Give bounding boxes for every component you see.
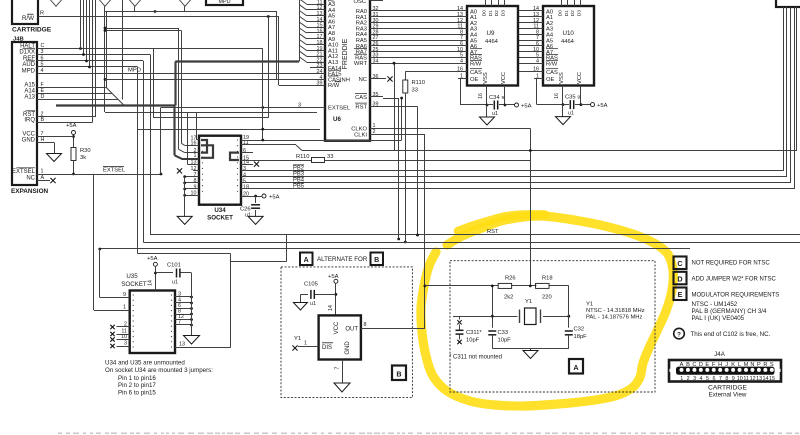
svg-text:u1: u1 — [492, 111, 498, 117]
svg-text:This end of C102 is free, NC.: This end of C102 is free, NC. — [691, 331, 771, 338]
label GND vertical — [345, 341, 351, 355]
wire EXTSEL with net label — [37, 167, 161, 175]
svg-text:NTSC - UM1452: NTSC - UM1452 — [692, 301, 738, 308]
capacitor C101 — [155, 263, 191, 286]
vertical link x=286.7 — [231, 235, 287, 262]
svg-text:Pin 2 to pin17: Pin 2 to pin17 — [118, 382, 156, 389]
capacitor C33 10pF — [488, 330, 511, 349]
bus segments between U9 and U10 — [518, 11, 534, 72]
svg-text:CARTRIDGE: CARTRIDGE — [708, 385, 747, 392]
svg-text:External View: External View — [709, 392, 747, 399]
svg-text:8: 8 — [194, 178, 197, 184]
pin 1 DIS stub with X — [292, 341, 318, 351]
wire U34 pin11 with jog — [241, 62, 395, 151]
crystal Y1 — [520, 299, 541, 325]
pin B IRQ of J4B — [24, 117, 44, 124]
svg-text:PAL - 14.187576 MHz: PAL - 14.187576 MHz — [586, 315, 642, 321]
svg-text:D1: D1 — [488, 10, 494, 16]
svg-text:3: 3 — [124, 341, 127, 347]
pin 3 EXTSEL of U6 — [298, 102, 351, 111]
svg-text:DIS: DIS — [322, 345, 332, 351]
pin 39 RST of U6 — [355, 101, 383, 110]
IC socket U34 body — [199, 136, 241, 205]
svg-text:NTSC - 14.31818 MHz: NTSC - 14.31818 MHz — [586, 308, 645, 314]
svg-text:18pF: 18pF — [574, 334, 588, 340]
socket dots inside U35 — [133, 294, 173, 347]
pin 23 FA14 of U6 — [310, 63, 342, 72]
note C102 free — [691, 331, 771, 338]
label EXPANSION — [11, 188, 49, 195]
crystal frequency note — [586, 302, 645, 321]
svg-text:u1: u1 — [172, 280, 178, 286]
pin 22 A13 of U6 — [310, 57, 338, 66]
ground at crystal — [523, 349, 538, 359]
svg-text:D2: D2 — [494, 10, 500, 16]
svg-text:D: D — [677, 274, 682, 283]
svg-text:IRQ: IRQ — [24, 118, 35, 124]
ground bus left of U34 — [177, 177, 192, 225]
label DIS with overline — [322, 343, 333, 351]
wire U6 RST down to RST net — [383, 107, 419, 237]
pin 19 A11 of U6 — [310, 46, 338, 55]
svg-text:B: B — [374, 257, 379, 264]
svg-text:R/W: R/W — [328, 83, 340, 89]
svg-text:MPD: MPD — [128, 68, 141, 74]
wire RST from J4B — [37, 0, 96, 117]
ground at U9 — [480, 105, 499, 125]
svg-text:2: 2 — [124, 322, 127, 328]
pin 1 CLKO of U6 — [351, 123, 383, 132]
svg-text:A13: A13 — [24, 95, 35, 101]
svg-text:33: 33 — [412, 88, 418, 94]
svg-text:3: 3 — [243, 166, 246, 172]
jumper U34 pin1-pin16 — [201, 145, 213, 158]
svg-text:D2: D2 — [570, 10, 576, 16]
svg-text:NC: NC — [26, 176, 35, 182]
svg-text:1: 1 — [41, 169, 44, 175]
svg-text:12: 12 — [750, 376, 756, 382]
label OSC pin (cut) — [353, 0, 383, 5]
svg-text:D3: D3 — [576, 10, 582, 16]
svg-text:10: 10 — [737, 376, 743, 382]
svg-text:* C311 not mounted: * C311 not mounted — [449, 355, 502, 361]
wire R/W net from cartridge to FREDDIE column — [38, 16, 279, 18]
note U34/U35 unmounted — [105, 360, 213, 397]
wire U34 pin20 +5A — [241, 195, 262, 198]
svg-text:MPD: MPD — [22, 69, 36, 75]
pin VCC of U10 — [580, 86, 591, 107]
pin 14 A6 of U6 — [310, 17, 335, 26]
connector MPD box (cut off at top) — [206, 0, 243, 5]
svg-text:ADD JUMPER W2* FOR NTSC: ADD JUMPER W2* FOR NTSC — [692, 276, 777, 282]
wire U35 pin13 riser — [230, 254, 232, 348]
svg-text:On socket U34 are mounted 3 ju: On socket U34 are mounted 3 jumpers: — [105, 367, 213, 374]
label FREDDIE vertical — [342, 38, 349, 69]
wire A13 — [37, 100, 124, 106]
resistor R18 220 — [536, 276, 553, 301]
svg-text:4: 4 — [700, 376, 703, 382]
pin VSS of U9 — [478, 86, 487, 106]
svg-text:U10: U10 — [563, 30, 575, 37]
pin 34 WRT of U6 — [354, 58, 383, 67]
svg-text:MPD: MPD — [219, 0, 231, 5]
off-page connector arrow 1 — [50, 0, 63, 6]
wire AUD — [37, 66, 138, 68]
label J4A — [714, 351, 726, 358]
wire IRQ from J4B — [37, 0, 93, 123]
svg-text:15: 15 — [769, 376, 775, 382]
svg-text:EXPANSION: EXPANSION — [11, 188, 49, 195]
thick bus into U34 pin 1 — [175, 106, 200, 160]
resistor R30 3k — [71, 148, 91, 176]
wire R/W feed — [279, 17, 311, 86]
svg-text:OSC: OSC — [353, 0, 366, 5]
wire from arrow 2 down — [104, 6, 106, 11]
junction U10 VSS node — [562, 103, 565, 106]
pin 7 VCC of J4B — [22, 131, 43, 138]
power +5A at U34 — [262, 194, 280, 200]
note question circle — [674, 328, 685, 339]
pin F A15 of J4B — [24, 82, 44, 89]
svg-text:+5A: +5A — [521, 103, 532, 109]
pin 24 FA15 of U6 — [310, 69, 342, 78]
wire VCC — [37, 136, 74, 138]
pin 2 RST of J4B — [23, 111, 44, 118]
wire net y=129 with junction — [138, 128, 320, 131]
svg-text:3k: 3k — [80, 155, 86, 161]
vertical feed at x=105 — [104, 12, 107, 113]
svg-text:7: 7 — [719, 376, 722, 382]
feed line to U34 pin 16 — [104, 29, 182, 32]
off-page connector arrow 4 — [179, 0, 192, 6]
wire from arrow 4 down — [184, 6, 186, 11]
svg-text:OUT: OUT — [345, 327, 358, 333]
wires into U34 left pins — [179, 28, 200, 165]
svg-text:13: 13 — [756, 376, 762, 382]
boxed letter B inside — [392, 366, 406, 381]
pin 16 A8 of U6 — [310, 28, 335, 37]
svg-text:PAL I (UK) VE0405: PAL I (UK) VE0405 — [692, 315, 745, 322]
junction OUT/CLKI to crystal — [424, 285, 427, 288]
wire U34 pin15 with R110 — [241, 154, 530, 163]
pin 1 EXTSEL of J4B — [12, 168, 44, 175]
wire U34 pin19 — [241, 97, 403, 142]
svg-text:CLKI: CLKI — [354, 132, 367, 138]
label OUT — [345, 327, 358, 333]
connector box top right (cut) — [776, 0, 800, 7]
svg-text:10pF: 10pF — [498, 338, 512, 344]
resistor R26 2k2 — [498, 276, 515, 301]
svg-text:+5A: +5A — [66, 123, 77, 129]
svg-text:C311*: C311* — [466, 330, 482, 336]
svg-text:+5A: +5A — [147, 256, 158, 262]
svg-text:VCC: VCC — [577, 72, 583, 84]
label U35 SOCKET — [121, 273, 147, 288]
wire crystal top rail — [425, 285, 569, 287]
wire MPD with net label to FA14 — [37, 68, 310, 74]
svg-text:R26: R26 — [505, 276, 516, 282]
svg-text:R/W: R/W — [546, 62, 558, 68]
pin 15 A7 of U6 — [310, 23, 335, 32]
svg-text:1: 1 — [304, 341, 307, 347]
svg-text:EXTSEL: EXTSEL — [328, 106, 351, 112]
dashed box A — [450, 261, 655, 392]
svg-text:AUD: AUD — [22, 62, 35, 68]
svg-text:u1: u1 — [310, 301, 316, 307]
svg-text:+5A: +5A — [597, 103, 608, 109]
pin R of cartridge connector — [40, 11, 44, 17]
svg-text:R/W: R/W — [470, 62, 482, 68]
svg-text:MODULATOR REQUIREMENTS: MODULATOR REQUIREMENTS — [692, 292, 780, 298]
wire PB2 — [241, 7, 784, 172]
capacitor C311 not mounted — [456, 320, 483, 344]
svg-text:220: 220 — [542, 295, 552, 301]
svg-text:RST: RST — [487, 229, 499, 235]
power +5A at J4B VCC — [66, 123, 77, 147]
long net line 3 — [98, 248, 690, 251]
pin D A13 of J4B — [24, 94, 44, 101]
junction EXTSEL riser — [160, 173, 163, 176]
pin 33 RAS of U6 — [354, 53, 383, 62]
svg-text:14: 14 — [763, 376, 769, 382]
svg-text:16: 16 — [554, 93, 560, 99]
jumper U34 pin2-pin17 — [201, 140, 207, 153]
X at U34 pin 12 — [177, 168, 182, 173]
pin 27 RA5 of U6 — [356, 35, 383, 44]
wire U9 OE loop — [458, 79, 487, 106]
svg-text:OE: OE — [470, 77, 479, 83]
pin 11 A3 of U6 — [310, 0, 335, 8]
wire CASINH feed — [277, 12, 311, 80]
svg-text:FREDDIE: FREDDIE — [342, 38, 349, 69]
svg-text:9: 9 — [732, 376, 735, 382]
pin 17 A9 of U6 — [310, 34, 335, 43]
svg-text:J4A: J4A — [714, 351, 726, 358]
label Y1 at box B — [294, 336, 301, 342]
J4A letter row — [680, 362, 774, 368]
svg-text:U6: U6 — [333, 116, 341, 123]
note modulator types — [692, 301, 768, 322]
boxed letter A title — [300, 253, 313, 266]
svg-text:R30: R30 — [80, 148, 91, 154]
svg-text:1: 1 — [680, 376, 683, 382]
long net line 2 — [143, 61, 800, 243]
wire from arrow 3 down — [134, 6, 136, 11]
bus stub verticals to top — [81, 0, 91, 68]
svg-text:5: 5 — [706, 376, 709, 382]
label R/W inside cartridge box — [22, 14, 34, 22]
connector J4B EXPANSION box — [12, 42, 37, 185]
long net line 4 — [138, 67, 231, 254]
junction CLKO at crystal mid node — [529, 285, 532, 288]
pin E A14 of J4B — [24, 88, 44, 95]
wire EXTSEL riser to FREDDIE pin 3 — [161, 108, 318, 175]
svg-text:2k2: 2k2 — [504, 295, 513, 301]
X at U34 pin 14 — [241, 162, 259, 167]
svg-text:14: 14 — [328, 305, 334, 311]
svg-text:VCC: VCC — [334, 321, 340, 334]
svg-text:VSS: VSS — [483, 72, 489, 84]
ground bus right of U35 — [184, 273, 200, 344]
svg-text:C105: C105 — [304, 282, 318, 288]
resistor R116 33 in CAS line — [403, 72, 425, 244]
wire A14 — [37, 94, 118, 100]
pin 39 R/W of U6 — [310, 81, 341, 90]
svg-text:7: 7 — [178, 320, 181, 326]
off-page connector arrow 3 — [129, 0, 142, 6]
pin A NC of J4B — [26, 175, 44, 182]
wire GND to ground — [37, 143, 55, 154]
svg-text:SOCKET: SOCKET — [121, 281, 147, 288]
svg-text:4464: 4464 — [485, 39, 499, 45]
svg-text:4464: 4464 — [561, 39, 575, 45]
wire A15 — [37, 88, 112, 94]
svg-text:B: B — [396, 370, 401, 379]
dashed box B — [281, 267, 412, 398]
pin 2 CLKI of U6 — [354, 129, 383, 138]
IC U6 FREDDIE body — [325, 0, 370, 141]
wire U9 CAS via R110 — [405, 71, 458, 73]
svg-text:C32: C32 — [574, 327, 585, 333]
bus RA0-RA7/RAS/WRT from U6 to U9 — [383, 11, 462, 64]
pin 4 CASINH of U6 — [310, 75, 350, 84]
svg-text:EXTSEL: EXTSEL — [12, 169, 36, 175]
J4A number row — [680, 376, 775, 382]
svg-text:6: 6 — [712, 376, 715, 382]
pin 21 A12 of U6 — [310, 52, 338, 61]
pin 5 AUD of J4B — [22, 61, 43, 68]
pin 30 RA2 of U6 — [356, 18, 383, 27]
socket dots inside U34 — [202, 139, 238, 192]
branch to C311 — [453, 316, 492, 319]
svg-text:D1XX: D1XX — [19, 50, 35, 56]
capacitor C34 — [487, 95, 505, 110]
svg-text:9: 9 — [194, 184, 197, 190]
pin 3 D1XX of J4B — [19, 48, 43, 55]
pin 12 A4 of U6 — [310, 5, 336, 14]
svg-text:16: 16 — [478, 93, 484, 99]
note C311 not mounted — [449, 355, 502, 361]
svg-text:VSS: VSS — [559, 72, 565, 84]
crystal line — [491, 315, 570, 318]
svg-text:1: 1 — [123, 305, 126, 311]
svg-text:Y1: Y1 — [525, 299, 532, 305]
feed line to U34 pin 2 — [104, 27, 179, 30]
pin 35 CAS of U6 — [355, 92, 383, 101]
wire NC stub with X — [37, 178, 56, 183]
svg-text:EXTSEL: EXTSEL — [103, 168, 126, 174]
oscillator module body — [319, 315, 361, 359]
svg-text:D0: D0 — [482, 10, 488, 16]
label CARTRIDGE — [12, 27, 52, 34]
boxed letter A inside — [569, 359, 583, 374]
svg-text:R/W: R/W — [22, 15, 34, 22]
svg-text:10pF: 10pF — [466, 338, 480, 344]
capacitor C35 — [563, 95, 581, 110]
horizontal feed y=112 — [105, 112, 317, 114]
svg-text:CAS: CAS — [355, 95, 367, 101]
pin A2 of U6 (cut at top) — [328, 0, 335, 4]
wire PB5 — [241, 7, 795, 190]
IC socket U35 body — [130, 291, 175, 354]
yellow highlighter loop — [421, 216, 673, 406]
wire U35 pin9 — [100, 249, 130, 298]
svg-text:U34: U34 — [214, 207, 226, 214]
svg-text:9: 9 — [123, 292, 126, 298]
power +5A in box B — [328, 274, 339, 315]
right branch of crystal — [568, 286, 570, 328]
svg-text:C34: C34 — [489, 95, 500, 101]
svg-text:SOCKET: SOCKET — [207, 215, 233, 222]
pin H GND of J4B — [22, 137, 45, 144]
wire net y=150.5 to top right — [302, 7, 797, 152]
scan artifact row at bottom (cut-off content) — [58, 432, 799, 434]
svg-text:18: 18 — [243, 184, 249, 190]
wire REF — [37, 60, 143, 62]
svg-text:13: 13 — [179, 342, 185, 348]
wire D1XX — [37, 54, 150, 56]
wire FA15 feed long — [105, 79, 310, 81]
svg-text:WRT: WRT — [354, 61, 368, 67]
svg-text:2: 2 — [687, 376, 690, 382]
svg-text:8: 8 — [364, 322, 367, 328]
wire U35 pin1 — [94, 174, 130, 311]
wire PB3 — [241, 7, 787, 178]
capacitor C105 — [300, 282, 336, 308]
wire CASINH top run — [105, 11, 277, 13]
svg-text:Y1: Y1 — [294, 336, 301, 342]
svg-text:CAS: CAS — [470, 70, 482, 76]
svg-text:14: 14 — [148, 280, 154, 286]
svg-text:7: 7 — [335, 366, 341, 369]
pin VSS of U10 — [554, 86, 563, 105]
wire U34 pin6 stub — [241, 152, 253, 154]
pins left of U34 — [183, 135, 199, 196]
vertical x=122 feed to A13 — [122, 0, 124, 100]
svg-text:NC: NC — [359, 77, 367, 83]
svg-text:OE: OE — [546, 77, 555, 83]
svg-text:RST: RST — [355, 105, 367, 111]
svg-text:+5A: +5A — [269, 194, 280, 200]
svg-text:C35: C35 — [565, 95, 576, 101]
label J4B — [13, 37, 24, 43]
wire PB4 — [241, 7, 791, 184]
power +5A at U35 — [147, 256, 158, 291]
svg-text:GND: GND — [22, 138, 36, 144]
svg-text:Pin 1 to pin16: Pin 1 to pin16 — [118, 375, 156, 382]
ground at U10 — [556, 105, 575, 125]
pin C HALT of J4B — [20, 42, 44, 49]
svg-text:A: A — [304, 257, 309, 264]
junction RST net — [416, 234, 419, 237]
svg-text:Y1: Y1 — [586, 302, 593, 308]
svg-text:C: C — [677, 259, 682, 268]
pin 8 OUT wire — [361, 286, 425, 329]
pin 28 RA4 of U6 — [356, 29, 383, 38]
pin 36 NC of U6 with X — [359, 74, 393, 83]
wire U10 OE loop — [534, 79, 563, 105]
boxed letter B title — [371, 253, 384, 266]
capacitor C26 — [240, 196, 260, 219]
wire U6 CLKI down — [383, 134, 425, 286]
svg-text:NOT REQUIRED FOR NTSC: NOT REQUIRED FOR NTSC — [692, 261, 771, 267]
address bus fan into U6 — [300, 0, 311, 63]
svg-text:R110: R110 — [412, 80, 425, 86]
wire from arrow 1 down — [0, 0, 1, 1]
pin 32 RA0 of U6 — [356, 6, 383, 15]
svg-text:R110: R110 — [296, 154, 309, 160]
power +5A at U10 — [591, 103, 608, 109]
